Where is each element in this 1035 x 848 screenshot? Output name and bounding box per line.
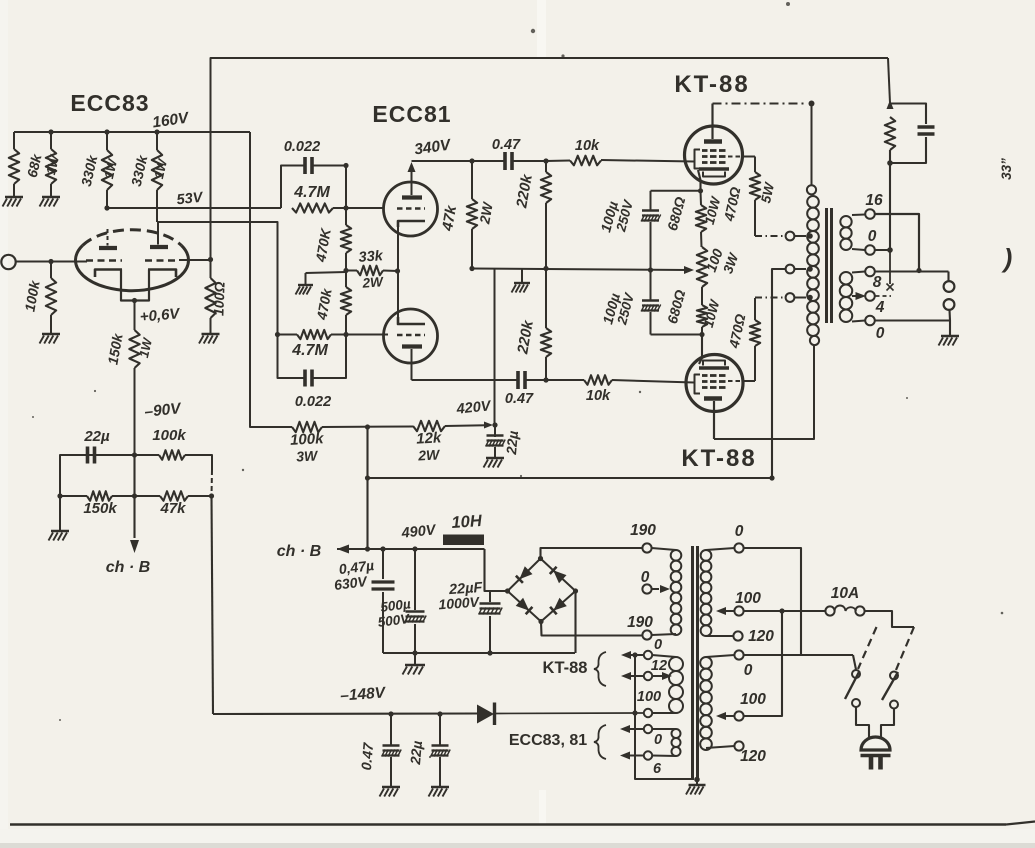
valve ECC81 lower triode envelope [384, 309, 438, 363]
ECC81 upper cathode [398, 221, 425, 227]
valve KT-88 lower envelope [686, 355, 743, 412]
svg-text:100: 100 [735, 590, 761, 607]
ECC81 lower grid [397, 334, 425, 336]
wire - to ECC81 lower grid [346, 334, 388, 336]
wire - feedback stub below tap [889, 250, 891, 284]
capacitor 50u+50u 500V [414, 549, 416, 610]
svg-text:100: 100 [637, 689, 661, 705]
PT heater tap 0 (ECC) [644, 725, 652, 733]
svg-text:33k: 33k [358, 248, 384, 266]
svg-text:1000V: 1000V [438, 594, 481, 613]
wire - anode-2 line to ECC81 lower grid network [158, 222, 278, 334]
svg-text:120: 120 [748, 628, 774, 645]
svg-text:47k: 47k [159, 500, 186, 517]
svg-text:0.47: 0.47 [492, 137, 521, 153]
wire - secondary series link to speaker [875, 270, 949, 272]
speaker terminal - [944, 299, 955, 310]
resistor 68k 1W [48, 129, 53, 134]
mains switch contacts upper [852, 670, 860, 678]
wire - input to grid [16, 261, 87, 263]
wire - dashed link [211, 470, 214, 496]
KT-88 upper cathode [699, 167, 729, 171]
PT primary winding upper [701, 550, 712, 561]
resistor 330k 1W (triode 2 anode load) [154, 129, 159, 134]
feedback capacitor [890, 104, 926, 125]
OT secondary tap 0 upper [865, 245, 875, 255]
wire - upper cathode node [651, 190, 701, 192]
resistor R-input-left (edge, label cut off) [13, 132, 15, 149]
wire - negative feedback top rail from 100R node to output network [211, 58, 889, 260]
input jack [1, 255, 15, 269]
ECC83 triode-1 anode [99, 246, 117, 250]
PT primary winding lower [700, 657, 712, 669]
valve KT-88 upper envelope [685, 126, 743, 184]
wire - lower screen lead [728, 380, 744, 382]
KT-88 lower grids [702, 374, 708, 377]
resistor 33k 2W (cathode tail) [346, 270, 357, 272]
wire - 12k to 420V node [445, 424, 486, 427]
diode (bias rectifier) [477, 705, 494, 724]
svg-text:KT-88: KT-88 [674, 71, 749, 98]
capacitor 22u (bias filter) [60, 455, 95, 496]
PT primary tap 120 lower [734, 741, 743, 750]
bridge diode NW (points to W) [519, 566, 532, 579]
arrow 340V measuring point [408, 162, 416, 172]
wire - 0 tap to feedback [875, 249, 890, 251]
ground - 100R [202, 333, 220, 335]
ground - 470k junction [306, 272, 347, 273]
output transformer secondary winding upper [840, 216, 851, 227]
svg-text:ch · B: ch · B [106, 559, 150, 576]
wire - ECC81 lower anode rail [412, 379, 519, 381]
coupling network C 0.022 (upper) [281, 166, 304, 209]
resistor 100k (grid leak) [48, 259, 53, 264]
resistor 150k (bias divider) [57, 493, 62, 498]
node - feedback junction at grid-2 [208, 257, 213, 262]
KT-88 upper anode [704, 139, 722, 144]
wire - -148V rail [213, 712, 477, 715]
resistor 100R (feedback leg) [210, 260, 212, 279]
resistor 4.7M (lower) [278, 334, 298, 336]
OT ultralinear tap upper [807, 233, 813, 239]
wire - ECC81 upper anode rail [412, 160, 473, 162]
capacitor 0.47u 630V [382, 549, 384, 579]
svg-text:120: 120 [740, 748, 766, 765]
wire - 100 tap to fuse [744, 610, 826, 612]
mains switch lever solid left [845, 671, 860, 699]
KT-88 lower cathode [699, 366, 729, 370]
wire - HT rail [337, 548, 444, 550]
PT core [691, 546, 694, 779]
svg-text:0.47: 0.47 [358, 741, 376, 771]
svg-text:4.7M: 4.7M [291, 342, 328, 359]
wire - diode to bias winding tap [496, 712, 643, 715]
mains plug [861, 737, 890, 750]
wire - centre tap to B+ feed [772, 269, 786, 478]
svg-text:190: 190 [627, 614, 653, 631]
wire - lower UL tap dash-dot [755, 297, 785, 299]
wire - upper screen lead [728, 155, 744, 157]
wire - cathode common rail [472, 269, 688, 271]
svg-text:0: 0 [876, 325, 885, 342]
wire - bridge E to supply common [574, 591, 576, 653]
svg-text:4: 4 [875, 299, 885, 316]
svg-text:33”: 33” [999, 158, 1014, 180]
wire - choke to rectifier + [485, 549, 508, 591]
bridge diode NE (points to N) [553, 570, 566, 583]
svg-text:0: 0 [641, 569, 650, 586]
svg-text:0: 0 [868, 228, 877, 245]
svg-text:4.7M: 4.7M [293, 184, 330, 201]
resistor 100k (bias divider) [135, 454, 160, 456]
resistor 100R 3W (balance) [697, 247, 707, 287]
ground - 0.47 bias [382, 786, 400, 788]
PT 0 centre tap [642, 584, 651, 593]
ground - bias divider [59, 496, 61, 530]
wire - bias feed down to -148V rail [212, 496, 214, 714]
feedback resistor (top right) [888, 58, 890, 103]
capacitor 0.47 (upper coupling) [472, 160, 505, 162]
svg-text:16: 16 [865, 192, 883, 209]
wire - supply common rail [383, 652, 575, 654]
valve ECC83 (double triode) envelope [76, 246, 189, 291]
svg-text:100k: 100k [290, 430, 325, 449]
fuse 10A [825, 606, 834, 615]
wire - triode-2 grid to feedback node [179, 259, 211, 261]
ECC81 upper grid [397, 207, 425, 209]
svg-text:22µ: 22µ [503, 430, 521, 456]
arrow into 100R 3W [684, 266, 694, 274]
svg-text:0: 0 [654, 732, 662, 748]
resistor 470R (lower screen stopper) [754, 346, 756, 381]
ECC83 triode-2 grid [145, 259, 179, 262]
svg-text:0: 0 [744, 662, 753, 679]
ground - 100k grid leak [42, 333, 60, 335]
OT secondary tap 0 bottom [865, 316, 875, 326]
wire - lower cathode lead [699, 335, 702, 365]
resistor 47k (bias divider) [132, 493, 137, 498]
svg-text:0: 0 [654, 637, 662, 653]
wire - 53V anode-1 line to ECC81 grid network [107, 207, 281, 209]
svg-text:ch · B: ch · B [277, 543, 321, 560]
svg-text:2W: 2W [361, 274, 384, 291]
ground - 22u bias [431, 786, 449, 788]
wire - upper anode dash-dot to OT [713, 102, 807, 104]
svg-text:0: 0 [735, 523, 744, 540]
ground - speaker return [949, 321, 951, 336]
OT secondary tap 8/4 [856, 292, 867, 300]
output transformer secondary winding lower [840, 272, 853, 285]
ECC81 lower cathode [398, 317, 425, 324]
PT ECC heater winding [672, 729, 681, 738]
svg-text:–148V: –148V [340, 684, 388, 704]
PT heater tap 100 (bias) [644, 709, 652, 717]
svg-text:10k: 10k [586, 388, 611, 404]
resistor 220k (lower KT88 grid leak) [543, 377, 548, 382]
wire - bridge AC top to 190 tap [541, 548, 643, 559]
wire - lower anode to OT [714, 345, 814, 439]
svg-text:100: 100 [740, 691, 766, 708]
svg-text:53V: 53V [176, 190, 205, 209]
wire - 160V supply rail [14, 131, 250, 133]
PT KT-88 heater winding [669, 657, 683, 671]
output transformer primary winding [811, 104, 813, 186]
ground - cathode rail [521, 270, 523, 283]
svg-text:3W: 3W [296, 447, 320, 464]
capacitor 100u 250V (upper cathode) [650, 191, 652, 211]
ECC83 triode-1 grid [86, 259, 122, 262]
ground - 22u decoupling [486, 457, 504, 459]
capacitor 22u (bias filter 2) [437, 711, 442, 716]
ECC83 triode-1 cathode [95, 270, 122, 278]
mains switch lever dashed right [896, 627, 914, 670]
wire - upper cathode to tail [397, 227, 399, 271]
svg-text:6: 6 [653, 761, 662, 777]
mains switch lever solid right [882, 672, 898, 700]
svg-text:8: 8 [873, 274, 882, 291]
ECC83 triode-2 cathode [148, 270, 176, 278]
wire - 16 tap link [875, 214, 919, 270]
svg-text:2W: 2W [417, 446, 442, 463]
svg-text:10A: 10A [831, 585, 859, 602]
PT primary tap 120 upper [733, 631, 742, 640]
KT-88 lower anode [704, 396, 722, 401]
svg-text:ECC81: ECC81 [372, 101, 451, 127]
svg-text:+0,6V: +0,6V [139, 305, 182, 326]
PT 190 tap lower [642, 630, 651, 639]
wire - 420V to 160V dropper feed [250, 132, 292, 427]
capacitor 100u 250V (lower cathode) [650, 270, 652, 301]
valve ECC81 upper triode envelope [384, 182, 438, 236]
wire - rail to 420V node [494, 270, 496, 426]
ECC83 common cathode stem [121, 270, 149, 301]
wire - heater 0 to ground bus [635, 655, 694, 779]
svg-text:0.022: 0.022 [295, 394, 331, 410]
OT secondary lower top tap [865, 267, 875, 277]
PT HV winding 190-0-190 [671, 550, 682, 561]
resistor 680R 10W (upper cathode) [700, 191, 703, 205]
ground - far left resistor [5, 196, 23, 198]
ground - PT core / screen [694, 777, 700, 783]
capacitor 22u (420V decoupling) [494, 425, 496, 437]
PT primary tap 0 lower [734, 650, 743, 659]
OT centre tap (B+) [807, 266, 813, 272]
OT ultralinear tap lower [807, 295, 813, 301]
capacitor 0.47 (bias filter 1) [388, 711, 393, 716]
OT secondary tap 16 [865, 209, 875, 219]
ground - 68k [42, 196, 60, 198]
resistor 10k (lower grid stopper) [546, 379, 584, 381]
svg-text:12k: 12k [416, 429, 443, 447]
wire - lower cathode node [651, 334, 703, 336]
resistor 330k 1W (triode 1 anode load) [104, 129, 109, 134]
ECC81 upper anode [402, 195, 422, 199]
PT primary tap 100 lower [734, 711, 743, 720]
resistor 470k (upper) [345, 208, 347, 225]
svg-text:KT-88: KT-88 [681, 445, 756, 472]
output transformer core [825, 208, 828, 323]
page frame bottom border [10, 823, 1006, 826]
svg-text:150k: 150k [83, 500, 117, 517]
svg-text:100k: 100k [152, 427, 186, 444]
bridge diode SE (points to S) [553, 598, 566, 611]
resistor 220k (upper KT88 grid leak) [543, 158, 548, 163]
svg-text:190: 190 [630, 522, 656, 539]
mains switch contacts lower [852, 699, 860, 707]
wire - upper cathode lead [698, 170, 701, 191]
wire - switch left pole in [853, 655, 856, 670]
ECC81 lower anode [402, 344, 422, 348]
svg-text:ECC83: ECC83 [70, 90, 149, 116]
KT-88 upper grids [702, 149, 708, 152]
svg-text:10k: 10k [575, 138, 600, 154]
ECC83 triode-2 anode [150, 245, 168, 249]
node - bias divider junction [132, 452, 137, 457]
wire - lower 100 parallel link [744, 611, 783, 716]
svg-text:KT-88: KT-88 [543, 659, 588, 677]
svg-text:22µ: 22µ [407, 740, 425, 766]
coupling network C 0.022 (lower) [278, 335, 305, 379]
PT heater tap 6 (ECC) [644, 751, 652, 759]
mains switch lever dashed left [858, 627, 877, 669]
resistor 470R 5W (upper screen stopper) [754, 157, 756, 173]
PT 190 tap upper [642, 543, 651, 552]
capacitor 22uF 1000V [489, 591, 491, 602]
wire - bridge AC bottom (S) to 190 tap [541, 622, 642, 636]
PT primary tap 0 upper [734, 543, 743, 552]
bridge diode SW (points to S) [516, 598, 529, 611]
ground - supply common [414, 653, 416, 664]
resistor 4.7M (upper) [292, 203, 333, 212]
node - 470k junction [343, 268, 348, 273]
wire - cathode link to lower triode [397, 271, 399, 322]
arrow ch-B HT output [337, 545, 349, 554]
PT heater tap 0 (KT88) [644, 651, 652, 659]
svg-text:0.47: 0.47 [505, 391, 534, 407]
resistor 12k 2W [413, 421, 445, 431]
capacitor 0.47 (lower coupling) [516, 371, 520, 389]
wire - 100k to 12k [322, 426, 413, 429]
svg-text:ECC83, 81: ECC83, 81 [509, 732, 587, 749]
PT heater tap 12 (KT88) [644, 672, 652, 680]
wire - bottom 0 to speaker return [875, 319, 950, 321]
resistor 470k (lower) [345, 271, 347, 288]
PT primary tap 100 upper [734, 606, 743, 615]
wire - to ECC81 upper grid [346, 207, 384, 209]
svg-text:0.022: 0.022 [284, 139, 320, 155]
wire - lower 0 to switch [744, 654, 854, 656]
wire - B+ feed to supply [368, 477, 773, 479]
wire - feedback to 0 tap [889, 163, 891, 250]
resistor 680R 10W (lower cathode) [701, 287, 703, 305]
wire - switch to plug [856, 707, 869, 738]
wire - primary 0 bus [744, 548, 802, 655]
resistor 10k (upper grid stopper) [546, 160, 570, 163]
svg-text:10H: 10H [451, 512, 484, 532]
wire - fuse to switch [865, 611, 915, 627]
resistor 100k 3W [292, 422, 322, 432]
arrow ch-B bias output [133, 455, 135, 538]
resistor 47k 2W (upper anode load) [469, 158, 474, 163]
bridge rectifier BY228 [508, 559, 541, 592]
svg-text:100Ω: 100Ω [210, 281, 227, 316]
scan crease light band [537, 0, 546, 58]
wire - upper UL tap dash-dot [755, 235, 785, 237]
resistor 150k 1W (cathode) [129, 330, 139, 368]
svg-text:22µ: 22µ [83, 428, 110, 445]
svg-text:12: 12 [651, 658, 667, 674]
speaker terminal + [944, 281, 955, 292]
